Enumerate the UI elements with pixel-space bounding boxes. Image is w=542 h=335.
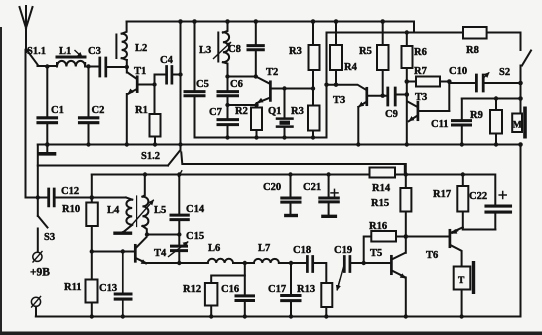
svg-text:T3: T3 [333,95,345,106]
svg-text:C22: C22 [469,191,487,202]
svg-text:C5: C5 [196,79,209,90]
svg-text:R13: R13 [297,284,315,295]
svg-text:R7: R7 [414,66,427,77]
svg-text:T: T [458,276,465,286]
svg-text:C6: C6 [230,79,243,90]
svg-text:T1: T1 [134,66,146,77]
svg-text:C19: C19 [334,245,352,256]
svg-text:C12: C12 [61,186,79,197]
svg-text:T4: T4 [154,248,167,259]
svg-text:C7: C7 [209,107,222,118]
svg-text:C15: C15 [186,231,204,242]
svg-text:T2: T2 [266,67,278,78]
svg-text:C13: C13 [99,283,117,294]
svg-text:C3: C3 [88,46,101,57]
svg-text:M: M [513,121,522,131]
svg-text:S1.1: S1.1 [27,46,46,57]
svg-text:Q1: Q1 [268,106,281,117]
svg-text:R4: R4 [344,62,358,73]
svg-text:+9В: +9В [30,267,50,279]
svg-text:R8: R8 [466,45,479,56]
svg-text:C21: C21 [303,182,321,193]
svg-text:L4: L4 [107,205,120,216]
svg-text:C8: C8 [228,44,241,55]
svg-text:T5: T5 [370,248,382,259]
svg-text:R5: R5 [359,46,372,57]
svg-text:L7: L7 [258,243,270,254]
svg-text:T6: T6 [426,250,438,261]
svg-text:C4: C4 [160,55,174,66]
svg-text:R17: R17 [433,189,451,200]
svg-text:R14: R14 [372,183,391,194]
svg-text:L5: L5 [154,205,166,216]
svg-text:L3: L3 [199,45,211,56]
svg-text:C18: C18 [293,245,311,256]
svg-text:L1: L1 [59,46,71,57]
svg-text:R6: R6 [414,47,427,58]
svg-text:C16: C16 [221,284,239,295]
svg-text:C17: C17 [268,284,286,295]
svg-text:R10: R10 [62,204,80,215]
svg-text:C10: C10 [449,66,467,77]
svg-text:R16: R16 [369,221,387,232]
svg-text:R12: R12 [183,284,201,295]
svg-text:T3: T3 [415,92,427,103]
svg-text:R15: R15 [371,198,389,209]
svg-text:L2: L2 [135,43,147,54]
svg-text:R11: R11 [64,282,82,293]
svg-text:C11: C11 [431,119,449,130]
svg-text:R9: R9 [470,110,483,121]
svg-text:S3: S3 [44,232,55,243]
svg-text:C14: C14 [186,204,205,215]
svg-text:R3: R3 [291,106,304,117]
svg-text:R3: R3 [289,46,302,57]
svg-text:C20: C20 [263,182,281,193]
svg-text:C1: C1 [51,105,64,116]
svg-text:L6: L6 [208,243,220,254]
svg-text:C2: C2 [92,105,105,116]
svg-text:S2: S2 [499,67,510,78]
svg-text:R1: R1 [135,105,148,116]
svg-text:C9: C9 [385,109,398,120]
svg-text:S1.2: S1.2 [141,151,160,162]
svg-text:R2: R2 [235,106,248,117]
